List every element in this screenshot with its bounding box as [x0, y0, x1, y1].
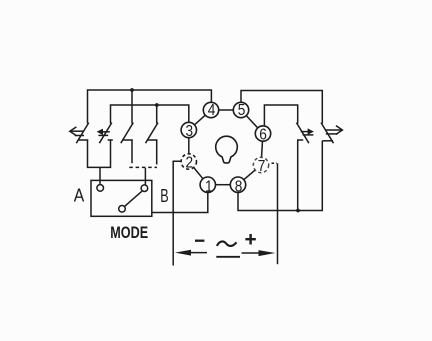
svg-text:2: 2 — [186, 155, 194, 172]
svg-text:1: 1 — [205, 178, 213, 195]
svg-text:A: A — [74, 185, 85, 205]
svg-text:8: 8 — [235, 178, 243, 195]
svg-text:5: 5 — [238, 102, 246, 119]
svg-text:4: 4 — [208, 102, 216, 119]
svg-text:7: 7 — [258, 158, 266, 175]
svg-text:3: 3 — [186, 123, 194, 140]
svg-text:MODE: MODE — [110, 223, 148, 242]
svg-text:B: B — [160, 186, 168, 206]
svg-text:6: 6 — [259, 127, 267, 144]
